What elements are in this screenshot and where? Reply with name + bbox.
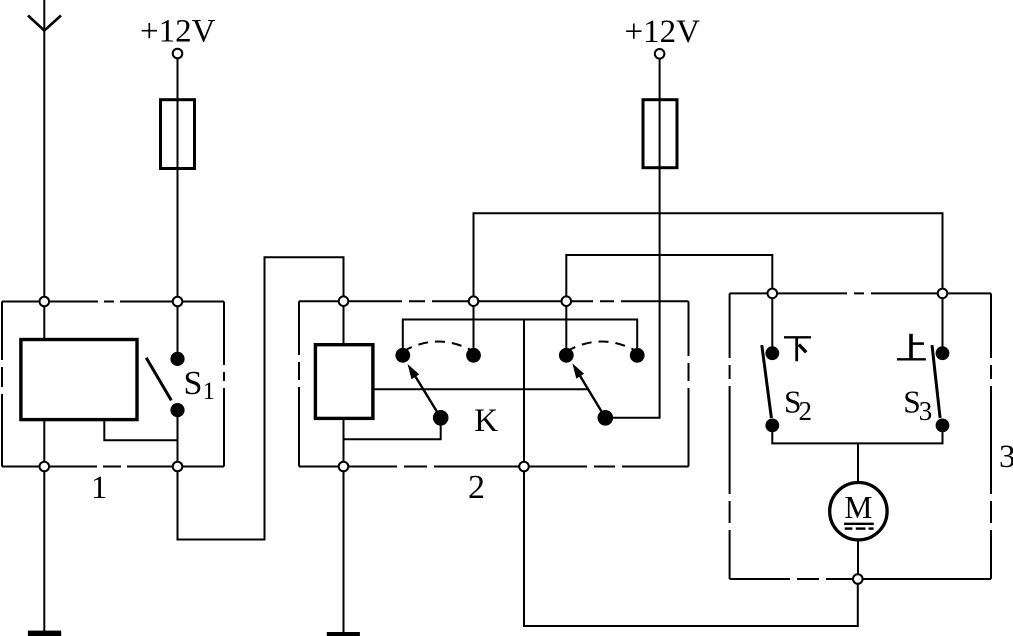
svg-text:1: 1 (203, 378, 216, 405)
svg-text:+12V: +12V (140, 14, 216, 50)
svg-text:3: 3 (999, 439, 1013, 475)
svg-text:S: S (184, 365, 203, 402)
svg-text:K: K (474, 403, 498, 439)
svg-text:+12V: +12V (625, 14, 701, 50)
svg-text:2: 2 (799, 396, 813, 426)
svg-text:1: 1 (91, 470, 107, 506)
svg-text:M: M (844, 490, 872, 525)
svg-text:3: 3 (919, 396, 933, 426)
svg-text:2: 2 (468, 469, 485, 506)
